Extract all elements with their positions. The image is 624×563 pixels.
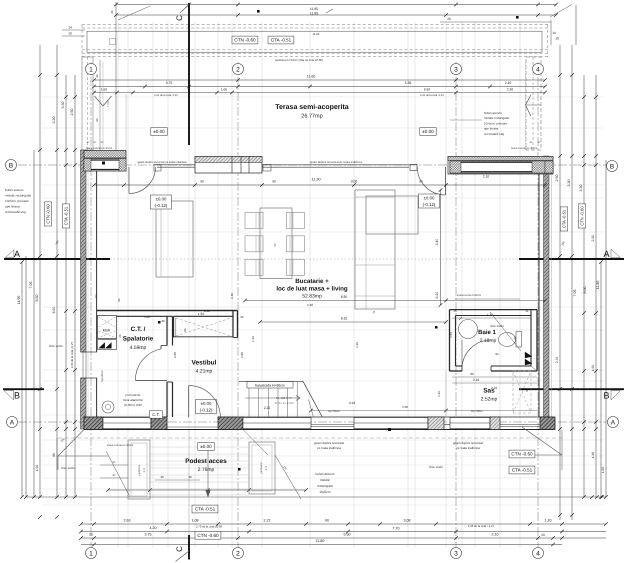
svg-text:A: A	[603, 249, 609, 259]
svg-text:1.5%: 1.5%	[107, 100, 110, 107]
svg-text:Hp=30cm: Hp=30cm	[101, 370, 104, 381]
svg-text:ape terasa: ape terasa	[484, 127, 499, 131]
svg-text:jardiniera H=10cm (fata de cot: jardiniera H=10cm (fata de cota ±0.00)	[274, 58, 323, 62]
svg-text:1.80: 1.80	[144, 315, 150, 319]
svg-text:2.10: 2.10	[483, 175, 489, 179]
svg-text:84: 84	[495, 352, 499, 356]
svg-text:bufan ascuns: bufan ascuns	[5, 188, 24, 192]
svg-text:B: B	[610, 163, 615, 170]
svg-text:30: 30	[160, 475, 164, 479]
svg-text:CTN -0.60: CTN -0.60	[46, 204, 51, 224]
svg-text:4.59mp: 4.59mp	[130, 345, 147, 351]
svg-text:2.50: 2.50	[555, 175, 559, 182]
svg-text:h=0: h=0	[265, 465, 268, 470]
svg-text:4: 4	[536, 66, 540, 73]
svg-text:2.60: 2.60	[204, 309, 210, 313]
svg-text:mana curenta H=90cm: mana curenta H=90cm	[107, 444, 133, 447]
svg-text:1.20: 1.20	[545, 519, 552, 523]
svg-text:C: C	[175, 546, 184, 552]
svg-text:63: 63	[513, 336, 517, 340]
svg-text:3.30: 3.30	[579, 185, 583, 192]
svg-text:1.08: 1.08	[192, 519, 199, 523]
svg-text:88: 88	[52, 453, 56, 457]
svg-text:mica adancime: mica adancime	[123, 398, 144, 402]
svg-text:metalic rectangular: metalic rectangular	[484, 116, 509, 120]
svg-text:71: 71	[372, 310, 376, 314]
svg-text:2.70: 2.70	[555, 357, 559, 363]
svg-text:±0.00: ±0.00	[153, 129, 165, 134]
svg-text:3.40: 3.40	[435, 239, 439, 246]
svg-text:(-0.12): (-0.12)	[155, 203, 168, 208]
svg-text:C.T.: C.T.	[152, 412, 159, 417]
svg-text:recirculabil etaj: recirculabil etaj	[484, 132, 504, 136]
svg-text:±0.00: ±0.00	[422, 129, 434, 134]
svg-text:2: 2	[236, 66, 240, 73]
svg-text:80: 80	[325, 519, 329, 523]
svg-text:pe toata inaltimea: pe toata inaltimea	[317, 446, 341, 450]
svg-text:CTN -0.60: CTN -0.60	[580, 206, 585, 226]
svg-text:±0.00: ±0.00	[424, 196, 435, 201]
svg-text:(0-30m), Ø16: (0-30m), Ø16	[124, 403, 142, 407]
svg-text:±0.00: ±0.00	[200, 444, 212, 449]
svg-text:2.65 de la cota -0.10: 2.65 de la cota -0.10	[154, 94, 178, 97]
svg-text:2.10: 2.10	[473, 378, 479, 382]
svg-text:A: A	[611, 419, 616, 426]
svg-text:17.5 x 4 / 27cm: 17.5 x 4 / 27cm	[274, 401, 294, 405]
svg-text:98: 98	[273, 243, 277, 247]
svg-text:2.30: 2.30	[507, 88, 513, 92]
svg-text:2.65 de la cota -0.10: 2.65 de la cota -0.10	[420, 94, 444, 97]
svg-text:recirculabil etaj: recirculabil etaj	[5, 210, 26, 214]
svg-text:30: 30	[95, 74, 99, 78]
svg-text:jardiniera: jardiniera	[260, 462, 263, 474]
svg-text:6.90: 6.90	[424, 88, 430, 92]
svg-text:manacurenta h=80cm: manacurenta h=80cm	[457, 294, 481, 297]
svg-text:1.26: 1.26	[437, 391, 441, 397]
svg-text:2.26 de la cota +1.27: 2.26 de la cota +1.27	[468, 524, 495, 528]
svg-text:7.05: 7.05	[29, 282, 33, 289]
svg-text:1.50: 1.50	[601, 467, 605, 473]
svg-text:Hp=30cm: Hp=30cm	[471, 409, 484, 413]
svg-text:3.30: 3.30	[52, 117, 56, 124]
svg-text:1.16: 1.16	[251, 336, 255, 342]
svg-text:90: 90	[117, 298, 121, 302]
svg-text:10x5cm: 10x5cm	[319, 490, 331, 494]
svg-text:geam duplex securizat: geam duplex securizat	[453, 441, 483, 445]
svg-text:rectangular: rectangular	[317, 484, 334, 488]
svg-text:9.10: 9.10	[349, 401, 355, 405]
svg-text:2.30: 2.30	[591, 235, 595, 242]
svg-text:3.75: 3.75	[166, 81, 173, 85]
svg-text:ape terasa: ape terasa	[5, 205, 20, 209]
svg-text:3: 3	[454, 66, 458, 73]
svg-text:3: 3	[454, 550, 458, 557]
svg-text:11.80: 11.80	[596, 281, 600, 290]
svg-text:40: 40	[110, 10, 114, 14]
svg-text:96: 96	[525, 388, 529, 392]
svg-text:90: 90	[200, 180, 204, 184]
svg-text:1.60: 1.60	[101, 88, 107, 92]
svg-text:geam duplex securizat: geam duplex securizat	[314, 441, 344, 445]
svg-text:linie soclu: linie soclu	[49, 344, 63, 348]
svg-text:Spalatorie: Spalatorie	[123, 336, 154, 343]
svg-text:Vestibul: Vestibul	[192, 360, 217, 367]
svg-text:A: A	[10, 419, 15, 426]
svg-text:90: 90	[272, 180, 276, 184]
svg-text:8.50: 8.50	[35, 295, 39, 302]
svg-text:14: 14	[552, 31, 556, 35]
svg-text:80: 80	[470, 372, 474, 376]
svg-text:Terasa semi-acoperita: Terasa semi-acoperita	[275, 103, 349, 111]
svg-text:4.21mp: 4.21mp	[196, 369, 213, 375]
svg-text:linie soclu: linie soclu	[61, 466, 75, 470]
svg-text:±0.00: ±0.00	[156, 197, 167, 202]
svg-text:10: 10	[68, 32, 72, 36]
svg-text:1.50: 1.50	[35, 465, 39, 471]
svg-text:5.30: 5.30	[405, 81, 412, 85]
svg-text:26.77mp: 26.77mp	[301, 114, 322, 120]
svg-text:2.63: 2.63	[124, 519, 131, 523]
svg-text:2.76mp: 2.76mp	[198, 467, 215, 473]
svg-text:balustrada H=90cm: balustrada H=90cm	[255, 384, 285, 388]
svg-text:B: B	[9, 162, 14, 169]
svg-text:2.18mp: 2.18mp	[480, 338, 497, 344]
svg-text:geam duplex securizat pe toata: geam duplex securizat pe toata inaltimea	[138, 161, 187, 164]
svg-text:2.22: 2.22	[264, 406, 271, 410]
svg-text:3.00: 3.00	[351, 180, 358, 184]
svg-text:11.95: 11.95	[17, 296, 21, 305]
svg-text:15: 15	[453, 309, 457, 313]
svg-text:geam duplex securizat pe toata: geam duplex securizat pe toata inaltimea	[310, 160, 363, 164]
svg-text:bufan ascuns: bufan ascuns	[484, 111, 502, 115]
svg-text:3.08: 3.08	[404, 519, 411, 523]
svg-text:CTA -0.51: CTA -0.51	[271, 38, 292, 43]
svg-text:put forat de: put forat de	[125, 393, 141, 397]
svg-text:8.00: 8.00	[583, 287, 587, 294]
svg-text:±0.00: ±0.00	[201, 401, 212, 406]
svg-text:11.85: 11.85	[310, 7, 318, 11]
svg-text:4.20: 4.20	[150, 526, 157, 530]
svg-text:Baie 1: Baie 1	[478, 329, 496, 336]
svg-text:2: 2	[236, 550, 240, 557]
svg-text:11.02: 11.02	[313, 32, 320, 36]
svg-text:metalic: metalic	[320, 478, 331, 482]
svg-text:4: 4	[536, 550, 540, 557]
svg-text:90: 90	[188, 475, 192, 479]
svg-text:2.00: 2.00	[240, 352, 244, 358]
svg-text:25: 25	[89, 533, 93, 537]
svg-text:CTA -0.51: CTA -0.51	[195, 507, 216, 512]
svg-text:B: B	[14, 391, 20, 401]
svg-text:8.50: 8.50	[52, 307, 56, 314]
svg-text:2.52mp: 2.52mp	[481, 397, 498, 403]
svg-text:10x5cm, preluare: 10x5cm, preluare	[5, 199, 29, 203]
svg-text:14: 14	[68, 26, 72, 30]
svg-text:B: B	[603, 391, 609, 401]
svg-text:2.00: 2.00	[173, 352, 177, 358]
svg-text:CTN -0.60: CTN -0.60	[197, 533, 219, 538]
svg-text:Hp=30cm: Hp=30cm	[328, 409, 341, 413]
svg-text:1.30: 1.30	[591, 452, 595, 458]
svg-text:27: 27	[112, 473, 116, 477]
svg-text:10x5cm, preluare: 10x5cm, preluare	[484, 121, 508, 125]
svg-text:20: 20	[541, 533, 545, 537]
svg-text:11.85: 11.85	[310, 12, 318, 16]
svg-text:2.36 de la cota +0.27: 2.36 de la cota +0.27	[70, 341, 74, 368]
svg-text:7.70: 7.70	[393, 527, 400, 531]
svg-text:Bucatarie +: Bucatarie +	[295, 278, 329, 285]
svg-text:(-0.12): (-0.12)	[200, 407, 213, 412]
svg-text:1.56: 1.56	[449, 332, 453, 338]
svg-text:CTN -0.60: CTN -0.60	[234, 38, 256, 43]
svg-text:MSR: MSR	[103, 329, 111, 333]
svg-text:1: 1	[89, 66, 93, 73]
svg-text:pe toata inaltimea: pe toata inaltimea	[456, 446, 480, 450]
svg-text:6.20: 6.20	[435, 292, 439, 299]
svg-text:21: 21	[525, 309, 529, 313]
svg-text:90: 90	[419, 180, 423, 184]
svg-text:1.16: 1.16	[355, 342, 359, 348]
svg-text:27: 27	[112, 460, 116, 464]
svg-text:jardiniera: jardiniera	[138, 464, 141, 476]
svg-text:2.50: 2.50	[70, 109, 74, 116]
svg-text:1.50: 1.50	[307, 303, 313, 307]
svg-text:3.75: 3.75	[145, 533, 152, 537]
svg-text:8.35: 8.35	[341, 295, 348, 299]
svg-text:8.35: 8.35	[341, 317, 348, 321]
svg-text:CTA -0.51: CTA -0.51	[562, 209, 567, 228]
svg-text:mana curenta H=60cm: mana curenta H=60cm	[86, 147, 112, 150]
svg-text:2.70 de la cota ±0.00: 2.70 de la cota ±0.00	[196, 525, 223, 529]
svg-text:90: 90	[95, 118, 99, 122]
svg-text:2.10: 2.10	[491, 386, 497, 390]
svg-text:loc de luat masa + living: loc de luat masa + living	[276, 286, 348, 293]
svg-text:7.05: 7.05	[573, 290, 577, 297]
svg-text:1.50: 1.50	[591, 365, 595, 371]
svg-text:bufan ascuns: bufan ascuns	[316, 472, 335, 476]
svg-text:26: 26	[447, 17, 451, 21]
svg-text:11.30: 11.30	[311, 178, 320, 182]
svg-text:60: 60	[118, 334, 122, 338]
svg-text:86: 86	[183, 328, 187, 332]
svg-text:2.10: 2.10	[492, 533, 499, 537]
svg-text:A: A	[14, 249, 20, 259]
svg-text:5.58: 5.58	[402, 405, 408, 409]
svg-text:CTA -0.51: CTA -0.51	[512, 468, 533, 473]
svg-text:3.30: 3.30	[61, 102, 65, 109]
svg-text:Podest acces: Podest acces	[185, 458, 227, 465]
svg-text:1.60: 1.60	[221, 88, 227, 92]
svg-text:52.83mp: 52.83mp	[302, 294, 322, 300]
svg-text:52: 52	[94, 294, 98, 298]
svg-text:11.60: 11.60	[307, 75, 316, 79]
svg-text:10: 10	[555, 37, 559, 41]
svg-text:CTN -0.60: CTN -0.60	[511, 452, 533, 457]
svg-text:1: 1	[89, 550, 93, 557]
svg-text:3.30: 3.30	[567, 180, 571, 187]
svg-text:mana curenta H=80cm: mana curenta H=80cm	[511, 147, 537, 150]
svg-text:95: 95	[240, 315, 244, 319]
svg-text:2.10: 2.10	[505, 81, 512, 85]
svg-text:(-0.12): (-0.12)	[423, 202, 436, 207]
svg-text:2.22: 2.22	[264, 519, 271, 523]
svg-text:CTA -0.51: CTA -0.51	[64, 206, 69, 225]
svg-text:2.40: 2.40	[230, 293, 234, 299]
svg-text:5.50: 5.50	[344, 533, 351, 537]
svg-text:C: C	[175, 15, 184, 21]
svg-text:11.80: 11.80	[316, 539, 325, 543]
svg-text:C.T. /: C.T. /	[131, 326, 146, 333]
svg-text:metalic rectangular: metalic rectangular	[5, 194, 31, 198]
svg-text:linie soclu: linie soclu	[429, 465, 443, 469]
svg-text:98: 98	[161, 319, 165, 323]
svg-text:h=0: h=0	[143, 467, 146, 472]
